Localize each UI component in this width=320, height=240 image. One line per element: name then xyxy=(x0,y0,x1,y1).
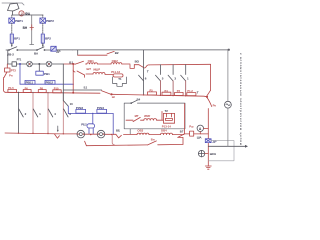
wire: red drop ШТ branch xyxy=(73,63,75,93)
node tap A xyxy=(18,92,19,93)
svg-text:ВР1: ВР1 xyxy=(14,36,20,40)
svg-text:В4: В4 xyxy=(137,97,141,101)
resistor Р1-2 right xyxy=(187,93,196,96)
switch Ш xyxy=(102,91,113,95)
wire: Б1 line xyxy=(63,89,101,91)
label МТ xyxy=(135,114,139,118)
vertical caption: к вспомогательным цепям xyxy=(239,53,243,146)
label РУВ3 xyxy=(76,106,84,110)
arrester spark gap mark xyxy=(30,25,34,30)
label ВН xyxy=(23,26,28,30)
label Т1 xyxy=(197,91,199,95)
shunt coil ИШР xyxy=(86,73,113,75)
label ЛВ-2 xyxy=(7,53,14,57)
wire: drop from bus to lamp row xyxy=(7,50,9,64)
label ВО xyxy=(135,59,140,63)
label РУВ4 xyxy=(97,106,105,110)
field winding ОВ3 xyxy=(137,133,149,135)
svg-text:Т: Т xyxy=(147,69,149,73)
resistor ВР1 xyxy=(10,34,13,43)
label ШТ xyxy=(87,67,92,71)
label 5 xyxy=(162,77,164,81)
svg-text:МТ: МТ xyxy=(135,114,139,118)
svg-text:Р10: Р10 xyxy=(54,87,59,91)
switch 10 xyxy=(63,101,68,107)
svg-text:Ш: Ш xyxy=(112,95,115,99)
svg-text:РУВ4: РУВ4 xyxy=(97,106,105,110)
svg-text:РВР2: РВР2 xyxy=(46,19,54,23)
relay Т1 bracket xyxy=(113,77,127,86)
wire: red rect right side xyxy=(210,64,212,90)
wire: left branch lower with arrow xyxy=(11,43,13,44)
resistor Р4-5 xyxy=(8,89,17,92)
svg-text:ДР: ДР xyxy=(213,139,217,143)
wire: ladder branch 2 xyxy=(19,92,24,133)
node tap C xyxy=(47,92,48,93)
svg-text:Р6: Р6 xyxy=(25,86,29,90)
wire: shunt lower branch xyxy=(85,137,183,145)
svg-text:ИШР: ИШР xyxy=(93,67,100,71)
label ОВ2 xyxy=(112,59,119,63)
label ДР xyxy=(213,139,217,143)
wire: right branch middle xyxy=(42,23,44,34)
label Б1 xyxy=(84,86,88,90)
reactor ДР blue box xyxy=(205,139,211,143)
relay РВБ1 box xyxy=(25,80,35,84)
wire: auxiliary vertical xyxy=(227,49,229,146)
svg-text:ШТ: ШТ xyxy=(87,67,92,71)
wire: long bus to right column xyxy=(73,49,230,50)
label В4 xyxy=(137,97,141,101)
switch ВО receptacle xyxy=(130,65,143,69)
label РВР2 xyxy=(46,19,54,23)
switch hook on bottom bus xyxy=(54,134,59,138)
label РВБ1 xyxy=(26,81,34,85)
big apparatus box xyxy=(124,103,185,129)
radio-reactor coil FА xyxy=(19,11,24,16)
wire: right branch lower with arrow xyxy=(42,43,44,44)
relay Р11-12 pill xyxy=(113,74,123,77)
svg-text:Р4: Р4 xyxy=(165,89,169,93)
svg-text:Р11-12: Р11-12 xyxy=(111,70,120,74)
wire: contactor branch 1 xyxy=(181,65,186,96)
label 3 xyxy=(174,77,176,81)
auxiliary machine АК xyxy=(225,101,232,108)
svg-text:РВ1: РВ1 xyxy=(44,72,50,76)
label РБ2 xyxy=(81,123,87,127)
switch Т1 xyxy=(207,90,211,96)
svg-text:Рш: Рш xyxy=(189,124,194,128)
switch ВБ xyxy=(116,135,121,138)
node on blue rail xyxy=(92,113,93,114)
wire: red bus end junction xyxy=(206,96,207,97)
svg-text:ОВ4: ОВ4 xyxy=(161,128,167,132)
label 4 xyxy=(54,112,56,116)
svg-text:РБ2: РБ2 xyxy=(81,123,87,127)
machine ШСН xyxy=(198,150,208,156)
resistor Р4 right xyxy=(162,92,171,95)
wire: T-drop from long bus xyxy=(143,50,145,68)
label Рн xyxy=(9,73,13,77)
label Рш xyxy=(189,124,194,128)
svg-text:РВБ2: РВБ2 xyxy=(46,81,54,85)
label Т xyxy=(147,69,149,73)
label Т2 xyxy=(165,109,169,113)
svg-text:Р8: Р8 xyxy=(40,86,44,90)
label ИМУ xyxy=(144,114,150,118)
svg-text:РВР1: РВР1 xyxy=(15,19,23,23)
wire: blue rail xyxy=(68,106,113,134)
wire: red vertical at box right xyxy=(184,104,186,134)
label 10 xyxy=(70,102,74,106)
field winding ОВ1 xyxy=(87,63,98,64)
wire: left branch middle xyxy=(11,23,13,34)
thin gray loop box xyxy=(208,141,234,161)
wire: left branch upper xyxy=(11,15,13,18)
shunt Рш box xyxy=(190,131,194,136)
switch В7 xyxy=(178,134,185,138)
wire: branch descent xyxy=(112,135,114,145)
wire: РВБ rail xyxy=(19,63,73,84)
svg-text:Р5: Р5 xyxy=(150,89,154,93)
wire: field winding line xyxy=(63,63,130,65)
svg-text:РТ2: РТ2 xyxy=(11,69,17,73)
motor armature 1 xyxy=(77,130,85,138)
svg-text:В7: В7 xyxy=(180,130,184,134)
svg-text:В2: В2 xyxy=(115,51,119,55)
label Вн xyxy=(151,137,155,141)
lightning arrester РВР2 xyxy=(40,18,46,23)
resistor Р10 xyxy=(53,90,61,93)
resistor Р3 right xyxy=(175,92,184,95)
svg-text:Рн: Рн xyxy=(9,73,13,77)
lamp 2 xyxy=(46,61,52,67)
resistor Р6 xyxy=(23,90,31,93)
switch Рн xyxy=(4,64,8,80)
svg-text:ВБ: ВБ xyxy=(116,128,120,132)
svg-text:ДР: ДР xyxy=(56,50,60,54)
node tap B xyxy=(32,92,33,93)
label ДР xyxy=(56,50,60,54)
relay РБ2 xyxy=(87,114,95,134)
wire: contact line (roof) xyxy=(2,3,24,5)
label ИШР xyxy=(93,67,100,71)
label Ш xyxy=(112,95,115,99)
relay РУВ4 box xyxy=(97,109,107,113)
pantograph (current collector) xyxy=(8,3,20,15)
wire: middle drop to bus xyxy=(30,15,34,45)
wire: bottom motor bus xyxy=(5,133,184,135)
relay РТ1 box xyxy=(12,62,16,66)
wire: link line to shunt xyxy=(184,133,208,135)
svg-text:ВО: ВО xyxy=(135,59,140,63)
switch МТ xyxy=(133,117,140,121)
label В2 xyxy=(115,51,119,55)
field winding ОВ2 xyxy=(111,63,122,64)
switch Вн xyxy=(148,141,157,145)
wire: row D continuation xyxy=(149,63,210,66)
svg-text:к вспомогательным электрически: к вспомогательным электрическим цепям xyxy=(239,53,243,146)
label Р13-14 xyxy=(162,124,171,128)
wire: lamp row xyxy=(8,63,64,65)
relay РУВ3 box xyxy=(76,109,86,113)
svg-text:Р4-5: Р4-5 xyxy=(8,86,14,90)
switch Т curl xyxy=(144,65,150,68)
label 6 xyxy=(69,112,71,116)
label Рк xyxy=(213,104,217,108)
svg-text:РТ1: РТ1 xyxy=(17,57,22,61)
wire: arrow line xyxy=(208,145,245,147)
svg-text:ШСН: ШСН xyxy=(210,152,216,156)
relay РВБ2 box xyxy=(45,80,55,84)
svg-text:ИМУ: ИМУ xyxy=(144,114,150,118)
wire: right branch upper xyxy=(42,15,44,18)
svg-text:Вн: Вн xyxy=(151,137,155,141)
svg-text:ВР2: ВР2 xyxy=(45,36,51,40)
label ВА xyxy=(34,51,39,55)
relay РТ2 red box xyxy=(5,68,11,72)
relay РВ1 box xyxy=(36,71,44,75)
switch В1 xyxy=(75,61,84,64)
label РВ1 xyxy=(44,72,50,76)
node dots on motor bus xyxy=(18,133,113,136)
label РТ1 xyxy=(17,57,22,61)
resistor ВР2 xyxy=(41,34,44,43)
wire: ladder branch 6 xyxy=(63,93,68,134)
wire: box drop to bus xyxy=(129,129,131,134)
lightning arrester РВР1 xyxy=(9,18,15,23)
switch В4 on box top xyxy=(131,100,137,103)
node dots on red bus right xyxy=(143,94,186,96)
label РТ2 xyxy=(11,69,17,73)
label РВБ2 xyxy=(46,81,54,85)
label ВР1 xyxy=(14,36,20,40)
svg-text:10: 10 xyxy=(70,102,74,106)
wire: drop to РВ1 xyxy=(39,63,40,71)
switch В2 xyxy=(107,51,114,54)
svg-text:ОВ3: ОВ3 xyxy=(137,128,143,132)
wire: contactor branch 5 xyxy=(156,65,161,96)
switch Рк xyxy=(207,98,212,167)
label ШСН xyxy=(210,152,216,156)
svg-text:ША: ША xyxy=(197,136,202,140)
ammeter А xyxy=(197,125,208,134)
wire: ladder branch 4 xyxy=(48,93,53,134)
svg-text:Т: Т xyxy=(197,91,199,95)
breaker ДР xyxy=(51,46,56,51)
label 2 xyxy=(25,112,27,116)
arrow marker into bus xyxy=(57,126,59,130)
label Т1 xyxy=(118,77,122,81)
wire: left edge red riser xyxy=(4,80,6,93)
svg-text:Р1-2: Р1-2 xyxy=(187,89,193,93)
label 6 xyxy=(145,77,147,81)
svg-text:Б1: Б1 xyxy=(84,86,88,90)
svg-text:Т1: Т1 xyxy=(118,77,122,81)
wire: ladder branch 1 xyxy=(33,93,38,134)
label ФА xyxy=(25,12,31,16)
svg-text:Р3: Р3 xyxy=(177,89,181,93)
resistor Р5 right xyxy=(148,92,157,95)
svg-text:РУВ3: РУВ3 xyxy=(76,106,84,110)
wire: main red bus (rheostat bus) xyxy=(5,92,207,97)
label ША xyxy=(197,136,202,140)
coil ИМУ xyxy=(144,119,157,121)
switch ШТ xyxy=(77,71,85,77)
lamp 1 xyxy=(27,61,33,67)
svg-text:Т2: Т2 xyxy=(165,109,169,113)
svg-text:ОВ2: ОВ2 xyxy=(112,59,119,63)
svg-text:ВН: ВН xyxy=(23,26,28,30)
motor armature 2 xyxy=(97,130,105,138)
wire: contactor branch 6 xyxy=(139,68,144,96)
label ОВ4 xyxy=(161,128,167,132)
svg-text:РВБ1: РВБ1 xyxy=(26,81,34,85)
label 1 xyxy=(187,77,189,81)
label 1 xyxy=(39,112,41,116)
wire: inner line xyxy=(126,119,163,121)
label РВР1 xyxy=(15,19,23,23)
ground xyxy=(205,166,211,169)
switch ВА xyxy=(37,47,46,51)
wire: stub from bus to bypass xyxy=(77,50,79,55)
wire: top horizontal node xyxy=(13,14,44,16)
relay Р13-14 xyxy=(162,111,175,123)
label В1 xyxy=(69,60,73,64)
wire: dark vertical x63 xyxy=(62,64,64,101)
resistor Р8 xyxy=(38,90,46,93)
field winding ОВ4 xyxy=(161,133,173,135)
wire: main bus left segment xyxy=(6,49,73,51)
label ОВ1 xyxy=(88,59,95,63)
switch ЛВ-2 xyxy=(9,47,18,51)
svg-text:ОВ1: ОВ1 xyxy=(88,59,95,63)
label ВБ xyxy=(116,128,120,132)
label Р11-12 xyxy=(111,70,120,74)
label ОВ3 xyxy=(137,128,143,132)
wire: contactor branch 3 xyxy=(168,65,173,96)
wire: red bypass line xyxy=(78,54,107,56)
label ВР2 xyxy=(45,36,51,40)
label В7 xyxy=(180,130,184,134)
node tap D xyxy=(63,92,64,93)
